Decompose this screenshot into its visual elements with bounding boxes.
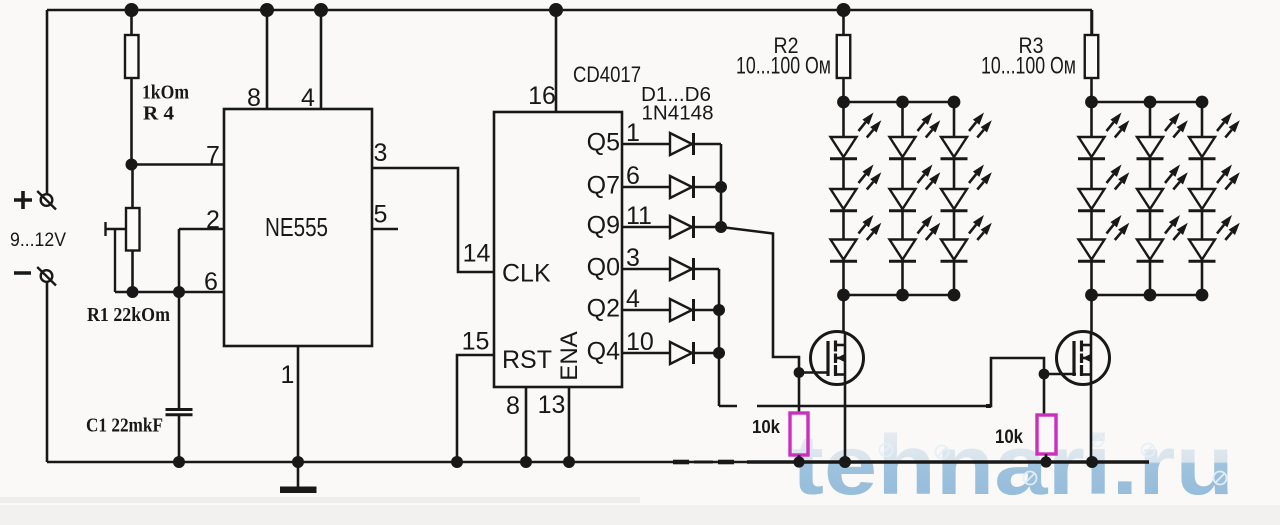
svg-text:15: 15 [462,328,490,356]
pin 1 label (CD4017 Q5) [626,119,640,147]
wire: LED column 3 (R2 block) [953,102,956,295]
label: CLK [502,260,551,288]
wire: group1 bus to MOSFET Q1 gate [721,227,799,373]
wire: LED column 2 (R3 block) [1149,102,1152,295]
label: R2 [774,33,799,58]
wire: Q0 output lead [622,268,719,271]
resistor R2 10...100 Om [837,10,851,102]
wire: Q1 gate to R5 [798,373,801,414]
trimmer R1 wiper [106,222,127,292]
svg-text:NE555: NE555 [265,212,328,242]
svg-text:10...100 Ом: 10...100 Ом [736,53,831,80]
wire: LED block R2 top bus [837,96,960,109]
wire: LED block R3 top bus [1085,96,1208,109]
wire: CD4017 RST to ground [457,355,494,462]
wire: LED column 1 (R3 block) [1090,102,1093,295]
svg-text:10k: 10k [995,426,1023,448]
LED row3 col2 (R2 block) [889,215,940,261]
pin 14 label (CD4017) [463,240,491,268]
wire: LED block R3 bottom bus [1085,289,1208,302]
svg-text:10...100 Ом: 10...100 Ом [981,53,1076,80]
transistor Q2 (MOSFET) [1057,332,1110,385]
svg-text:Q2: Q2 [587,295,620,323]
svg-text:Q5: Q5 [587,129,620,157]
diode D6 1N4148 [670,342,694,364]
LED row1 col2 (R2 block) [889,113,940,159]
pin 16 wire (CD4017) [555,10,558,112]
pin 3 label (NE555) [374,139,388,167]
node: R6/ground junction [1040,456,1051,467]
svg-text:C1 22mkF: C1 22mkF [86,415,163,437]
pin 1 label (NE555) [281,361,295,389]
svg-text:6: 6 [204,268,218,296]
node: C1/ground rail junction [173,456,185,468]
LED row3 col2 (R3 block) [1137,215,1188,261]
node: R4/R1/pin7 junction [126,159,138,171]
wire: NE555 pin 2 link [179,229,224,292]
svg-text:7: 7 [206,142,220,170]
label: 1N4148 [642,103,714,125]
wire: NE555 pin3 to CD4017 CLK [372,168,494,272]
resistor R4 1kOm [125,10,139,165]
diode D4 1N4148 [670,258,694,280]
pin 3 label (CD4017 Q0) [626,244,640,272]
watermark tehnari.ru [792,418,1234,512]
svg-text:4: 4 [301,84,315,112]
svg-text:5: 5 [374,201,388,229]
trimmer R1 22kOm [126,165,140,293]
node: Q1 source/ground junction [839,456,851,468]
svg-text:1: 1 [281,361,295,389]
diode D2 1N4148 [670,176,694,198]
pin 5 label (NE555) [374,201,388,229]
svg-text:10k: 10k [752,417,781,437]
wire: LED column 3 (R3 block) [1201,102,1204,295]
svg-text:RST: RST [502,346,552,374]
wire: Q2 output lead [622,309,719,312]
label: D1...D6 [641,84,711,106]
wire: Q5 output lead [622,143,721,146]
wire: Q1 drain/source [844,295,846,462]
label: output Q7 (CD4017) [587,172,620,200]
pin 8 label (NE555) [247,84,261,112]
transistor Q1 (MOSFET) [811,332,864,385]
IC U2 CD4017 body [494,112,622,387]
label: R 4 [143,103,174,125]
pin 15 label (CD4017) [462,328,490,356]
LED row2 col1 (R3 block) [1078,165,1129,211]
label: R1 22kOm [87,304,170,326]
svg-text:ENA: ENA [556,331,583,380]
svg-text:9...12V: 9...12V [10,230,66,251]
svg-text:Q9: Q9 [587,212,620,240]
LED row3 col3 (R3 block) [1189,215,1240,261]
pin 8 label (CD4017) [506,392,520,420]
pin 4 wire (NE555) [320,10,323,109]
capacitor C1 22mkF [166,292,193,462]
pin 2 label (NE555) [206,206,220,234]
wire: Q7 output lead [622,186,721,189]
label: CD4017 [573,62,641,87]
pin 6 label (NE555) [204,268,218,296]
node: Q2 gate junction [1039,369,1050,380]
node: Q2 source/ground junction [1086,456,1098,468]
LED row1 col2 (R3 block) [1137,113,1188,159]
label: 9...12V [10,230,66,251]
node: pin13/ground junction [563,456,575,468]
pin 13 wire (CD4017) [568,387,571,462]
svg-text:1N4148: 1N4148 [642,103,714,125]
terminal: - supply input [37,267,56,286]
label: 1kOm [142,82,189,104]
wire: Q9 output lead [622,226,721,229]
svg-text:CD4017: CD4017 [573,62,641,87]
svg-text:8: 8 [247,84,261,112]
pin 16 label (CD4017) [528,82,556,110]
pin 10 label (CD4017 Q4) [626,328,654,356]
ground symbol [280,462,317,493]
wire: group2 bus to MOSFET Q2 gate [719,358,1044,406]
wire: Q2 drain/source [1090,295,1093,462]
svg-text:1kOm: 1kOm [142,82,189,104]
LED row3 col1 (R3 block) [1078,215,1129,261]
LED row2 col2 (R2 block) [889,165,940,211]
wire: Q2 gate to R6 [1043,374,1046,415]
pin 13 label (CD4017) [538,391,566,419]
label: ENA [556,331,583,380]
LED row1 col1 (R3 block) [1078,113,1129,159]
svg-text:8: 8 [506,392,520,420]
pin 8 wire (CD4017) [525,387,528,462]
wire: LED column 2 (R2 block) [901,102,904,295]
LED row2 col3 (R2 block) [941,165,992,211]
resistor R3 10...100 Om [1085,10,1099,102]
LED row1 col3 (R3 block) [1189,113,1240,159]
diode D5 1N4148 [670,299,694,321]
svg-text:R 4: R 4 [143,103,174,125]
wire: Q2 gate lead [1044,373,1076,376]
label: output Q0 (CD4017) [587,254,620,282]
node: R5/ground junction [793,456,804,467]
LED row2 col1 (R2 block) [830,165,881,211]
svg-text:Q0: Q0 [587,254,620,282]
LED row2 col2 (R3 block) [1137,165,1188,211]
svg-text:16: 16 [528,82,556,110]
wire: top rail corner to R3 [1091,10,1094,35]
pin 4 label (CD4017 Q2) [626,285,640,313]
label: 10k (R6) [995,426,1023,448]
node: pin8/ground junction [520,456,532,468]
label: 10...100 Om (R2) [736,53,831,80]
svg-text:3: 3 [374,139,388,167]
LED row2 col3 (R3 block) [1189,165,1240,211]
svg-text:13: 13 [538,391,566,419]
wire: NE555 pin 7 lead [132,163,225,166]
label: output Q5 (CD4017) [587,129,620,157]
node: Q1 gate junction [794,367,805,378]
label: output Q2 (CD4017) [587,295,620,323]
pin 6 label (CD4017 Q7) [626,162,640,190]
label: C1 22mkF [86,415,163,437]
svg-text:CLK: CLK [502,260,551,288]
LED row1 col1 (R2 block) [830,113,881,159]
node: R1 bottom junction [127,286,139,298]
wire: LED block R2 bottom bus [837,289,960,302]
label: R3 [1019,33,1044,58]
pin 5 stub (NE555) [372,228,398,231]
label: RST [502,346,552,374]
LED row3 col3 (R2 block) [941,215,992,261]
resistor R6 10k (Q2 gate) [1037,415,1056,462]
node: RST/ground rail junction [451,456,463,468]
label: 10...100 Om (R3) [981,53,1076,80]
wire: NE555 pin 6 lead [115,291,224,294]
pin 7 label (NE555) [206,142,220,170]
IC U1 NE555 body [224,109,372,346]
terminal: + supply input [37,191,56,210]
svg-text:R1 22kOm: R1 22kOm [87,304,170,326]
diode D1 1N4148 [670,133,694,155]
pin 1 wire (NE555) [297,346,300,462]
wire: top +V rail [47,3,1092,17]
resistor R5 10k (Q1 gate) [790,413,808,462]
pin 8 wire (NE555) [266,10,269,109]
pin 11 label (CD4017 Q9) [626,202,652,230]
svg-text:Q4: Q4 [587,338,620,366]
LED row1 col3 (R2 block) [941,113,992,159]
wire: diode bus group2 (Q0/Q2/Q4) [713,269,725,406]
label: output Q4 (CD4017) [587,338,620,366]
svg-text:2: 2 [206,206,220,234]
wire: diode bus group1 (Q5/Q7/Q9) [715,144,727,233]
wire: Q1 gate lead [799,371,829,374]
svg-text:Q7: Q7 [587,172,620,200]
svg-text:14: 14 [463,240,491,268]
wire: left supply riser top [46,10,49,195]
wire: Q4 output lead [622,352,719,355]
wire: LED column 1 (R2 block) [842,102,845,295]
label: output Q9 (CD4017) [587,212,620,240]
label: - [14,271,31,275]
diode D3 1N4148 [670,216,694,238]
wire: left supply riser bottom [46,282,49,463]
label: + [14,191,32,209]
node: pin2/pin6/C1 junction [173,286,185,298]
LED row3 col1 (R2 block) [830,215,881,261]
label: 10k (R5) [752,417,781,437]
node: pin1/ground rail junction [292,456,304,468]
wire: bottom ground rail [47,461,1149,464]
pin 4 label (NE555) [301,84,315,112]
